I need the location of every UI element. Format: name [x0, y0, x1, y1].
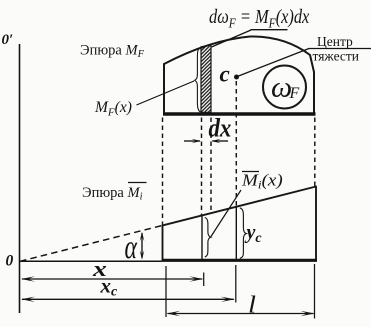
triangle right edge — [315, 186, 317, 260]
epure MF base (thick) — [163, 112, 316, 115]
hypotenuse solid part — [163, 187, 317, 226]
ext line l right — [314, 264, 316, 319]
svg-text:dx: dx — [209, 114, 232, 143]
ext line l left — [165, 266, 167, 317]
dashed c line — [235, 81, 237, 207]
formula underline — [251, 29, 288, 31]
svg-text:F: F — [289, 85, 300, 102]
epure MF outline — [164, 36, 314, 113]
leader from formula to strip — [212, 30, 252, 47]
svg-text:l: l — [248, 291, 256, 318]
dashed strip right continuation — [210, 118, 212, 213]
triangle left edge — [162, 225, 164, 260]
brace MF(x) ordinate — [195, 48, 201, 113]
svg-text:0: 0 — [6, 253, 14, 270]
brace Mi(x) ordinate — [205, 218, 211, 258]
triangle base thick — [162, 259, 318, 262]
overline of Mi — [128, 182, 147, 184]
point c dot — [234, 75, 239, 80]
dim x line — [22, 278, 202, 280]
svg-text:0′: 0′ — [2, 32, 14, 48]
ext line xc — [235, 265, 237, 303]
brace yc — [240, 208, 247, 258]
svg-text:c: c — [220, 62, 230, 87]
svg-text:Эпюра MF: Эпюра MF — [80, 43, 145, 61]
svg-text:Центр: Центр — [317, 34, 353, 49]
axis 0-0' — [19, 44, 21, 313]
dashed right edge continuation — [314, 118, 316, 187]
baseline thin — [20, 260, 162, 262]
ordinate line at xc — [235, 207, 237, 259]
svg-text:dωF = MF(x)dx: dωF = MF(x)dx — [209, 6, 309, 31]
strip dωF hatched — [201, 45, 211, 112]
alpha rise double arrow — [141, 233, 143, 258]
svg-text:Эпюра Mi: Эпюра Mi — [82, 185, 143, 203]
ordinate line at x — [201, 215, 203, 259]
ext line x — [203, 273, 205, 287]
dx dimension arrows — [184, 140, 200, 142]
leader MF(x) — [137, 81, 195, 105]
dim l line — [168, 313, 314, 315]
dashed left edge continuation — [162, 118, 164, 226]
svg-text:α: α — [125, 229, 138, 266]
hypotenuse dashed part — [20, 225, 163, 261]
leader to центр тяжести — [239, 49, 310, 77]
dim xc line — [22, 298, 234, 300]
circle omegaF — [263, 66, 306, 109]
leader Mi(x) — [211, 190, 241, 237]
svg-text:Mi(x): Mi(x) — [241, 170, 283, 191]
svg-text:тяжести: тяжести — [313, 49, 360, 64]
dashed strip left continuation — [201, 118, 203, 216]
overline of Mi(x) — [242, 171, 259, 173]
